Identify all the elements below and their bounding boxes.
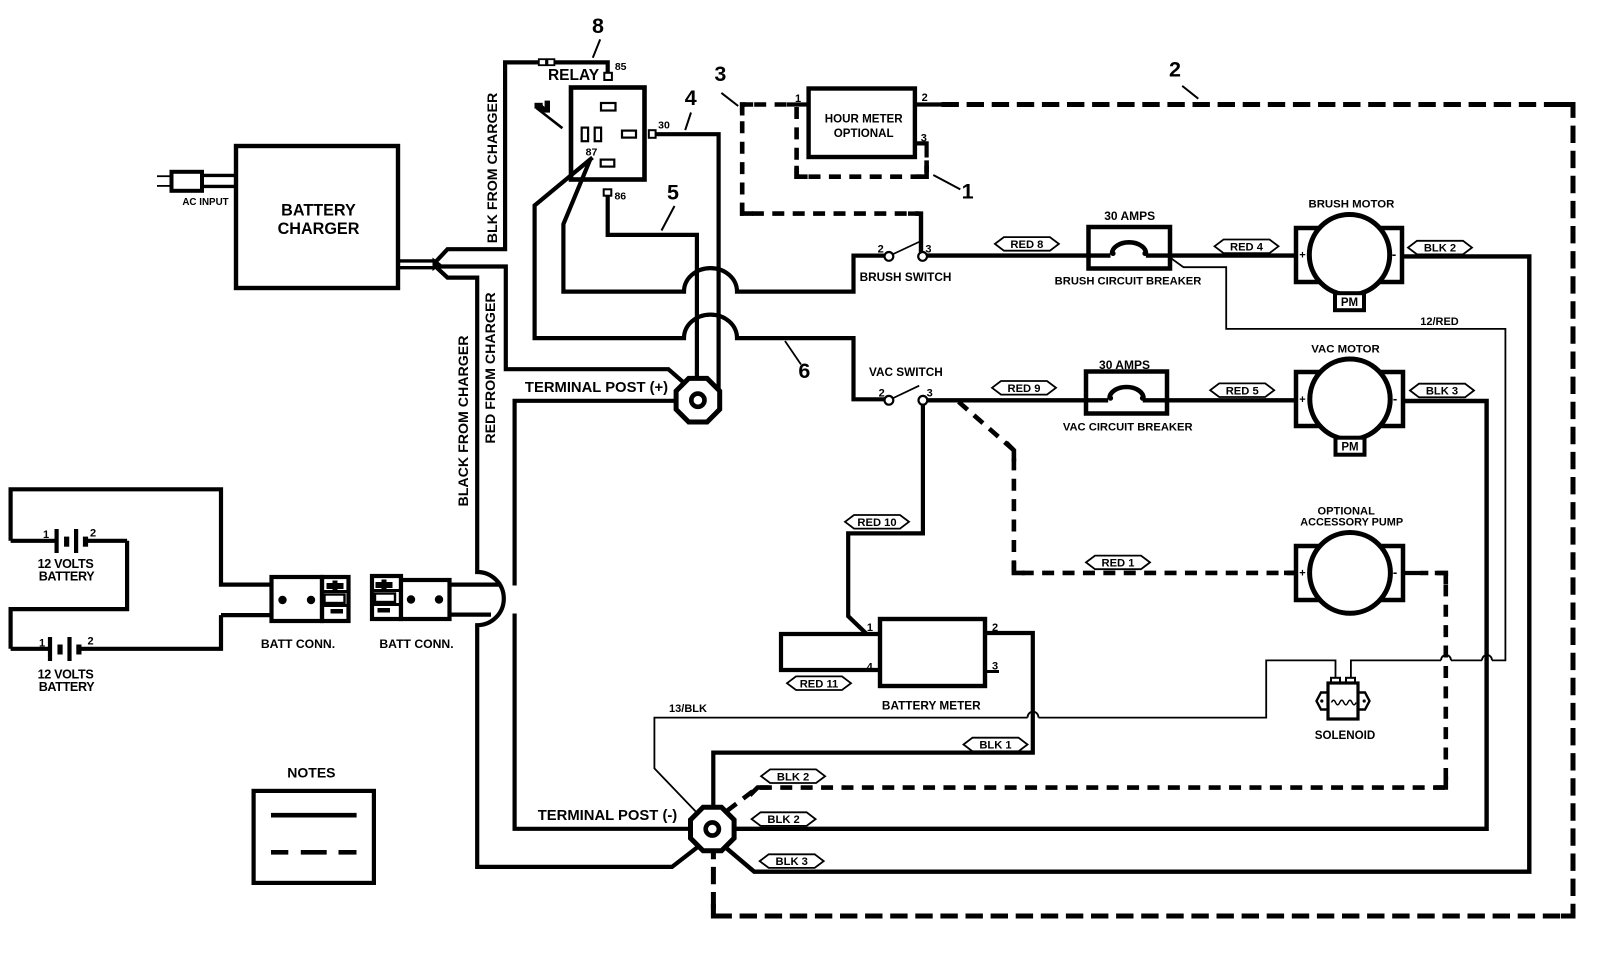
svg-text:3: 3 xyxy=(921,133,927,145)
svg-text:85: 85 xyxy=(615,61,627,73)
svg-text:BATT CONN.: BATT CONN. xyxy=(379,637,453,651)
svg-text:30: 30 xyxy=(658,120,670,132)
svg-text:4: 4 xyxy=(685,86,697,110)
svg-text:RED FROM CHARGER: RED FROM CHARGER xyxy=(483,292,499,443)
svg-text:13/BLK: 13/BLK xyxy=(669,703,707,715)
svg-text:5: 5 xyxy=(667,180,679,204)
svg-text:BATTERY: BATTERY xyxy=(39,570,96,584)
svg-text:87: 87 xyxy=(586,147,598,159)
svg-text:AC INPUT: AC INPUT xyxy=(182,197,228,208)
svg-text:30 AMPS: 30 AMPS xyxy=(1104,209,1155,223)
svg-text:RED 4: RED 4 xyxy=(1230,241,1264,253)
svg-text:RED 9: RED 9 xyxy=(1008,383,1041,395)
svg-text:-: - xyxy=(1393,565,1397,580)
svg-text:8: 8 xyxy=(592,14,604,38)
svg-text:+: + xyxy=(1299,250,1305,262)
svg-text:BRUSH SWITCH: BRUSH SWITCH xyxy=(860,270,952,284)
svg-text:86: 86 xyxy=(614,191,626,203)
svg-text:2: 2 xyxy=(922,92,928,104)
svg-text:1: 1 xyxy=(962,179,974,203)
svg-text:1: 1 xyxy=(867,622,873,634)
svg-text:BATTERY: BATTERY xyxy=(281,202,356,220)
svg-text:BLK 2: BLK 2 xyxy=(777,771,809,783)
svg-text:BLACK FROM CHARGER: BLACK FROM CHARGER xyxy=(456,335,472,506)
svg-text:VAC MOTOR: VAC MOTOR xyxy=(1311,344,1380,356)
svg-text:BRUSH CIRCUIT BREAKER: BRUSH CIRCUIT BREAKER xyxy=(1055,276,1202,288)
svg-text:1: 1 xyxy=(43,529,49,541)
svg-text:2: 2 xyxy=(992,622,998,634)
svg-text:BLK 3: BLK 3 xyxy=(776,856,808,868)
svg-text:3: 3 xyxy=(714,62,726,86)
svg-text:PM: PM xyxy=(1341,297,1358,309)
svg-text:SOLENOID: SOLENOID xyxy=(1315,729,1376,742)
svg-text:BATTERY METER: BATTERY METER xyxy=(882,699,981,713)
svg-text:BLK 3: BLK 3 xyxy=(1426,386,1458,398)
svg-text:CHARGER: CHARGER xyxy=(278,220,360,238)
svg-text:3: 3 xyxy=(992,661,998,673)
svg-text:2: 2 xyxy=(878,244,884,256)
svg-text:HOUR METER: HOUR METER xyxy=(825,113,904,126)
svg-text:BLK 1: BLK 1 xyxy=(979,740,1011,752)
svg-text:RED 10: RED 10 xyxy=(857,517,896,529)
svg-text:1: 1 xyxy=(39,638,45,650)
svg-text:BATT CONN.: BATT CONN. xyxy=(261,637,335,651)
svg-text:BRUSH MOTOR: BRUSH MOTOR xyxy=(1308,199,1394,211)
svg-text:2: 2 xyxy=(87,636,93,648)
svg-text:2: 2 xyxy=(90,528,96,540)
svg-text:OPTIONAL: OPTIONAL xyxy=(834,127,894,140)
svg-text:4: 4 xyxy=(867,662,874,674)
svg-text:3: 3 xyxy=(927,387,933,399)
svg-text:-: - xyxy=(1393,391,1397,406)
svg-text:NOTES: NOTES xyxy=(287,765,335,781)
svg-text:RED 1: RED 1 xyxy=(1102,558,1135,570)
svg-text:BLK 2: BLK 2 xyxy=(1424,243,1456,255)
svg-text:+: + xyxy=(1299,394,1305,406)
svg-text:2: 2 xyxy=(879,387,885,399)
svg-text:RED 11: RED 11 xyxy=(800,678,839,690)
svg-text:3: 3 xyxy=(925,244,931,256)
svg-text:VAC CIRCUIT BREAKER: VAC CIRCUIT BREAKER xyxy=(1063,422,1193,434)
svg-text:+: + xyxy=(1299,568,1305,580)
svg-text:VAC SWITCH: VAC SWITCH xyxy=(869,365,943,379)
svg-text:BLK 2: BLK 2 xyxy=(767,814,799,826)
svg-text:RELAY: RELAY xyxy=(548,67,600,84)
svg-text:BATTERY: BATTERY xyxy=(39,680,96,694)
svg-text:1: 1 xyxy=(795,93,801,105)
svg-text:2: 2 xyxy=(1169,57,1181,81)
svg-text:ACCESSORY PUMP: ACCESSORY PUMP xyxy=(1300,516,1403,528)
svg-text:12/RED: 12/RED xyxy=(1420,316,1459,328)
svg-text:30 AMPS: 30 AMPS xyxy=(1099,358,1150,372)
svg-text:RED 8: RED 8 xyxy=(1010,239,1043,251)
svg-text:RED 5: RED 5 xyxy=(1226,385,1259,397)
svg-text:PM: PM xyxy=(1341,442,1358,454)
svg-text:TERMINAL POST (-): TERMINAL POST (-) xyxy=(538,808,678,824)
svg-text:BLK FROM CHARGER: BLK FROM CHARGER xyxy=(485,93,501,244)
svg-text:-: - xyxy=(1392,247,1396,262)
svg-text:TERMINAL POST (+): TERMINAL POST (+) xyxy=(525,380,668,396)
